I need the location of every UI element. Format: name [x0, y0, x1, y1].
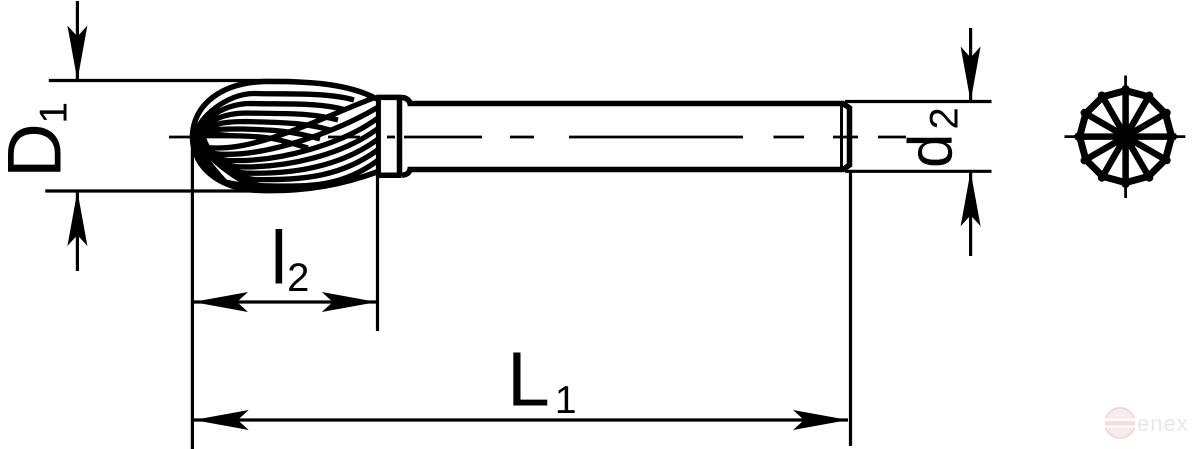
L1 right extension line — [849, 170, 852, 446]
center line (dash-dot) — [169, 136, 906, 139]
end view vertex bumps — [1074, 85, 1177, 188]
shank end chamfer line — [840, 105, 843, 169]
enex watermark — [1103, 408, 1189, 438]
l2 left extension line — [191, 133, 194, 449]
L1 arrow right — [793, 410, 848, 430]
D1 top extension line — [49, 79, 292, 82]
l2 right extension line — [376, 95, 379, 331]
D1 arrow up — [67, 191, 87, 246]
D1 arrow down — [67, 26, 87, 81]
burr head outline — [192, 81, 377, 190]
collar — [377, 95, 402, 177]
d2 bottom extension line — [845, 170, 992, 173]
l2 arrow left — [193, 292, 248, 312]
svg-text:d2: d2 — [897, 107, 967, 168]
L1 dimension line — [194, 418, 848, 421]
d2 top extension line — [845, 100, 992, 103]
d2 arrow down — [961, 47, 981, 102]
end view crosshair horizontal — [1065, 135, 1186, 138]
L1 arrow left — [194, 410, 249, 430]
shank outline — [402, 97, 850, 175]
d2 dimension line lower — [969, 171, 972, 256]
l2 dimension line — [193, 300, 377, 303]
end view crosshair vertical — [1124, 76, 1127, 199]
d2 arrow up — [961, 171, 981, 226]
end view cross-section — [1065, 76, 1186, 199]
svg-text:D1: D1 — [0, 102, 78, 178]
svg-text:enex: enex — [1137, 411, 1189, 436]
svg-text:L1: L1 — [507, 337, 577, 423]
d2 dimension line upper — [969, 28, 972, 102]
end view hub — [1113, 124, 1138, 149]
D1 dimension line lower — [76, 191, 79, 271]
l2 arrow right — [322, 292, 377, 312]
end view 12-sided outline — [1080, 91, 1172, 183]
D1 bottom extension line — [45, 189, 290, 192]
end view spokes — [1080, 91, 1172, 183]
D1 dimension line upper — [76, 1, 79, 81]
svg-text:l2: l2 — [271, 216, 310, 301]
